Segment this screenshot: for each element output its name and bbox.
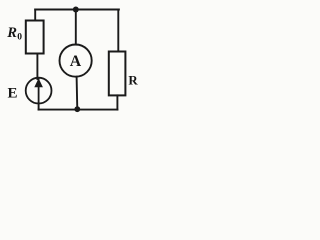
paper background [0, 0, 139, 119]
wire bottom horizontal [39, 109, 118, 111]
wire right branch lower (bottom to R box) [116, 95, 118, 109]
svg-text:E: E [8, 85, 18, 101]
svg-text:A: A [70, 53, 82, 70]
wire through source E [38, 79, 40, 104]
wire source E to bottom corner [38, 103, 40, 109]
wire right branch upper (R box to top corner) [117, 10, 119, 52]
source E (circle) [26, 78, 52, 104]
wire R0 to source E [36, 54, 38, 80]
svg-text:R: R [6, 25, 17, 41]
resistor R [109, 52, 126, 96]
wire ammeter branch upper [75, 10, 77, 45]
junction node top [73, 7, 79, 13]
wire ammeter branch lower [76, 77, 79, 110]
resistor R0 [26, 21, 44, 54]
junction node bottom [74, 106, 80, 112]
arrow of source E [34, 78, 43, 87]
svg-text:R: R [128, 73, 138, 87]
wire top horizontal [35, 9, 119, 11]
wire left branch upper (corner to R0 box) [34, 10, 36, 21]
svg-text:0: 0 [17, 33, 22, 43]
ammeter U1 (circle) [60, 45, 92, 77]
